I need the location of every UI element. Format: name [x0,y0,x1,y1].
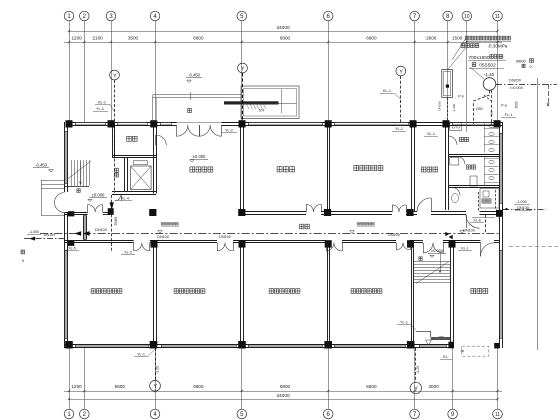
svg-text:P-b: P-b [458,95,464,99]
svg-text:6800: 6800 [193,36,204,41]
note block: sump well 700x1800 [468,55,506,69]
axis bubble 2 top [80,11,90,21]
svg-text:±0.000: ±0.000 [431,248,444,253]
room label: archive (3 chars) [471,288,476,293]
wall: gate room west partition [112,122,114,158]
door: archive room [481,243,495,257]
svg-text:DN100: DN100 [95,228,107,232]
door: classroom 3 [326,243,334,251]
svg-text:DN100: DN100 [388,233,400,237]
level mark: +-0.000 hall [190,154,208,162]
svg-text:-1.000: -1.000 [516,200,527,204]
door: classroom 1 [134,243,142,251]
pipe: corridor main drain line [40,231,500,235]
svg-text:6800: 6800 [280,384,291,389]
wall: axis-5 partition lower [240,243,242,345]
svg-text:KL-1: KL-1 [461,247,469,251]
svg-text:2600: 2600 [426,36,437,41]
riser: rain leader Y5 bottom [410,348,421,394]
columns: north facade [66,120,501,127]
room label: classroom 2 (6 chars) [174,289,178,294]
windows: south wall [75,345,447,348]
label: XL-4 riser arrow [110,197,132,226]
room label: elevator (vertical 2 chars) [115,168,119,172]
wall: corridor north side [242,212,448,215]
WC fixtures: men stalls [450,122,500,153]
entrance canopy [153,92,242,122]
axis bubble 1 top [64,11,74,21]
room label: classroom 1 (6 chars) [91,289,95,294]
svg-text:6800: 6800 [193,384,204,389]
entrance ramp [224,86,299,119]
wall: WC south wall [448,212,500,215]
wall: corridor north wall west segments [65,213,111,215]
svg-text:-1.20: -1.20 [416,366,420,374]
riser: rain leader Y2 top [238,63,248,122]
wall: elevator block south wall [112,191,156,193]
svg-text:Y: Y [241,66,245,72]
label: YL-1 at riser Y4 [134,349,155,357]
note block: pump specification [461,36,511,48]
svg-text:1500: 1500 [452,36,463,41]
windows: north facade [75,122,492,125]
room label: reception (3 chars) [277,167,282,172]
svg-text:1350: 1350 [475,107,482,111]
wall: west exterior [65,122,68,348]
door: elevator landing door [115,194,122,201]
svg-text:Y: Y [399,69,403,75]
svg-text:11: 11 [495,14,500,20]
door: classroom 4 [396,243,403,250]
axis bubble 5 bottom [237,409,247,419]
label: XL-1 consult room [424,132,438,137]
room label: consult room (3 chars) [421,167,426,172]
wall: axis-4 partition upper [153,122,155,194]
svg-text:YL-1: YL-1 [395,127,403,131]
riser pipe: Y1 in-building [114,125,116,193]
wall: WC partition women/accessible [448,185,500,187]
drain detail at Y5: pipe and funnel [416,331,450,345]
windows: east wall [500,133,503,339]
west entrance platform and steps [41,180,64,216]
wall: stairwell west wall lower [411,243,413,345]
wall: axis-6 partition lower [327,243,329,345]
wall: consult room east / WC west partition [445,122,447,210]
wall: axis-5 partition upper [240,127,242,212]
riser: rain leader Y4 bottom [150,348,161,391]
door: discussion room [392,205,399,212]
axis bubble 2 bottom [80,409,90,419]
axis grid: top column lines [70,21,498,122]
label: DN100 -1.300 rotated at axis8 [438,101,457,112]
svg-text:DN100: DN100 [157,235,169,239]
door: stairwell double door [423,243,433,253]
svg-text:XL-5: XL-5 [68,247,76,251]
wall: north facade [68,123,503,126]
room label: gate room (2 chars) [127,136,132,141]
windows: west wall [65,131,68,339]
dimension line 34000 top [68,25,499,32]
axis bubble 9 bottom [448,409,458,419]
note: manhole cover dia 600 [516,59,533,70]
axis bubble 11 top [493,11,503,21]
columns: corridor south row [68,240,456,247]
level mark: -0.450 west [33,163,53,173]
svg-text:700x1800: 700x1800 [468,55,489,61]
elevator: shaft and cab [131,161,152,190]
axis bubble 7 bottom [410,409,420,419]
svg-text::0.30MPa: :0.30MPa [488,43,508,48]
svg-text:10: 10 [464,14,470,20]
svg-text:-1.000: -1.000 [29,230,39,234]
sump: pump shaft at axis 8 [442,70,453,123]
door: WC lobby from corridor [466,215,480,229]
axis bubble 6 top [323,11,333,21]
label: XL-6 WC [470,219,484,223]
svg-text:-0.450: -0.450 [188,73,201,78]
axis bubble 5 top [237,11,247,21]
svg-text:XL-6: XL-6 [473,219,481,223]
door: classroom 2 [217,243,225,251]
svg-text:0.: 0. [530,65,533,69]
svg-text:3500: 3500 [128,36,139,41]
valve fittings at corridor junction [446,232,453,239]
wall: axis-6 partition upper [327,127,329,212]
svg-text:FL-1: FL-1 [505,113,513,117]
axis bubble 4 top [150,11,160,21]
svg-text:DN200: DN200 [509,79,521,83]
svg-text:1200: 1200 [71,36,82,41]
wall: axis-4 partition lower [153,243,155,345]
svg-text:KL.: KL. [443,355,449,359]
label: DN200 i=0.004 [509,79,523,91]
svg-text:P-a: P-a [501,104,507,108]
svg-text:2100: 2100 [92,36,103,41]
svg-text:-1.300: -1.300 [452,103,456,112]
wall: WC niche line [472,217,495,219]
svg-text:DN100: DN100 [517,206,529,210]
svg-text:34000: 34000 [276,393,290,399]
WC fixtures: accessible [452,189,499,209]
room label: discussion room (5 chars) [354,165,359,170]
axis bubble 10 top [462,11,472,21]
svg-text:05S502: 05S502 [479,63,496,69]
svg-text:-0.450: -0.450 [35,163,48,168]
label: up mark east stair [419,257,422,261]
axis grid: bottom column lines [70,348,498,409]
wall: stair flight edge [65,186,90,188]
wall: gate room south partition [112,155,156,157]
svg-text:5%: 5% [259,109,265,113]
riser: WC stack pipes [479,190,496,234]
wall: corridor south side [64,241,500,243]
door: west exterior double door [55,193,65,213]
svg-text:Ø600: Ø600 [516,59,527,64]
axis bubble 6 bottom [323,409,333,419]
dimension line bottom bays [64,384,502,392]
svg-text:YL-1: YL-1 [96,107,104,111]
svg-text:Y: Y [414,386,418,392]
axis bubble 7 top [410,11,420,21]
riser: rain leader Y3 top [396,66,406,122]
label: west exterior -1.000 DN100 [27,230,55,237]
wall: WC partition men/women [448,154,500,156]
svg-text:DN100: DN100 [44,233,55,237]
svg-text:DN100: DN100 [438,101,442,111]
door: reception room [306,204,314,212]
wall: east exterior [500,122,503,348]
label: DN100 texts on corridor [95,228,475,239]
room label: entrance hall (4 chars) [190,167,195,172]
room label: classroom 4 (6 chars) [351,289,355,294]
svg-text:KL-1: KL-1 [383,89,391,93]
level mark: +-0.000 west stair [88,193,107,202]
svg-text:6800: 6800 [366,384,377,389]
door: consult room [417,198,432,212]
note: connect-to-outside-drain text west [161,223,179,227]
columns: corridor north row [68,208,503,217]
label: KL-1 at riser Y3 [380,89,401,99]
svg-text:YL-2: YL-2 [225,129,233,133]
axis bubble 1 bottom [64,409,74,419]
room label: classroom 3 (6 chars) [269,289,273,294]
axis bubble 4 bottom [150,409,160,419]
wall: south exterior [64,345,454,348]
label: XL-5 west [65,247,79,251]
label: FL-1 [501,113,516,118]
svg-text:±0.000: ±0.000 [92,193,105,198]
WC fixtures: women stalls [450,157,500,187]
level mark: +-0.000 east stairwell [428,248,446,258]
label: east exit -1.000 DN100 [514,200,532,210]
svg-text:6800: 6800 [366,36,377,41]
boundary line east [537,78,539,350]
svg-text:XL-3: XL-3 [124,251,132,255]
leader lines from notes [447,38,484,79]
svg-text:34000: 34000 [276,25,290,31]
svg-text:11: 11 [495,412,500,418]
riser: rain leader Y1 top [110,70,120,122]
label: KL-1 near archive door [458,247,472,251]
door: hall to corridor west double door [88,205,96,213]
label: KL ghost outside [440,346,489,359]
svg-text:XL-1: XL-1 [427,132,435,136]
svg-text:XL-4: XL-4 [121,197,129,201]
svg-text:-1.20: -1.20 [156,366,160,374]
room label: accessible WC (2 chars) [482,199,486,203]
svg-text:DN65: DN65 [114,217,118,226]
svg-text:Y: Y [113,73,117,79]
window: corridor west vestibule [83,216,86,240]
svg-text:6800: 6800 [280,36,291,41]
svg-text:i=0.004: i=0.004 [510,86,523,90]
door: main entrance four-leaf [177,123,222,137]
room label: corridor (2 chars) [300,224,304,229]
pipe: DN200 sump discharge [496,84,557,106]
door: gate room to hall [156,135,167,146]
svg-text:3000: 3000 [428,384,439,389]
pipe: west exterior drain stub [24,237,64,241]
svg-text:±0.000: ±0.000 [193,154,206,159]
label: up mark west stair [77,189,80,193]
room label: women WC (2 chars) [467,165,471,169]
svg-text:3000: 3000 [515,101,519,108]
svg-text:5600: 5600 [115,384,126,389]
pipe: lower-right exterior dashes [509,246,559,248]
svg-text:Y: Y [153,384,157,390]
axis bubble 11 bottom [493,409,503,419]
label: YL-1 on facade near axis 6 [392,127,406,132]
stair: west stairs treads [68,160,92,186]
svg-text:DN100: DN100 [463,229,475,233]
label: KL-1 YL-1 at riser Y1 [93,101,115,113]
floor drain symbols on corridor line [158,231,465,233]
svg-text:YL-1: YL-1 [400,321,408,325]
note: connect-to-outside-drain text mid [357,223,375,227]
level mark: -0.450 entrance [186,73,202,83]
columns: south wall [65,341,500,349]
wall: stairwell east wall lower [450,243,452,345]
axis bubble 3 top [106,11,116,21]
svg-text:-1.40: -1.40 [484,72,495,77]
svg-text:150: 150 [490,111,494,116]
pipe: east WC drain exit [503,208,546,210]
door: WC entries [448,136,465,196]
svg-text:DN100: DN100 [219,235,231,239]
elevator: machine room label area [125,158,128,192]
dimension line top bays [64,36,502,44]
label: down arrow canopy [188,109,192,113]
label: YL-2 at entrance [222,129,237,133]
label: XL-3 [121,251,135,255]
wall: axis-7 partition upper [411,127,413,212]
svg-text:YL-1: YL-1 [137,353,145,357]
dimension line 34000 bottom [68,393,499,400]
small axis mark west [21,250,25,263]
svg-text:1200: 1200 [71,384,82,389]
sump: collecting well circle [483,78,496,91]
svg-text:KL-1: KL-1 [98,101,106,105]
room label: men WC (2 chars) [460,137,464,141]
axis bubble 8 top [443,11,453,21]
pipe: well to building dashed runs [474,90,492,124]
stair: east stairwell treads [414,254,451,284]
label: YL-1 at riser Y5 [397,321,416,331]
